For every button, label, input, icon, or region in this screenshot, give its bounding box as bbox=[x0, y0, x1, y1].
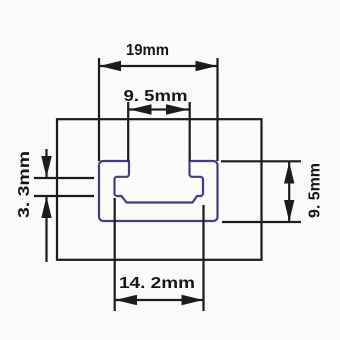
svg-text:3. 3mm: 3. 3mm bbox=[16, 151, 33, 218]
dim 9.5mm top arrowhead right bbox=[166, 104, 188, 114]
dim 19mm dimension line bbox=[99, 65, 218, 67]
dim 3.3mm extension line lower bbox=[34, 195, 94, 197]
dim 3.3mm dimension line lower tail bbox=[45, 196, 47, 262]
dim 3.3mm arrowhead up bbox=[41, 197, 51, 219]
svg-text:9. 5mm: 9. 5mm bbox=[124, 88, 188, 105]
dim 14.2mm arrowhead left bbox=[115, 295, 137, 305]
svg-text:19mm: 19mm bbox=[126, 42, 169, 59]
T-slot profile outline bbox=[99, 161, 218, 221]
dim 14.2mm extension line left bbox=[114, 198, 116, 311]
dim 9.5mm top arrowhead left bbox=[129, 104, 151, 114]
dim 19mm extension line left bbox=[98, 58, 100, 161]
dim 19mm extension line right bbox=[216, 58, 218, 161]
dim 9.5mm right arrowhead down bbox=[284, 200, 294, 222]
dim 14.2mm extension line right bbox=[202, 205, 204, 311]
dim 3.3mm arrowhead down bbox=[41, 156, 51, 178]
dim 9.5mm top dimension line bbox=[129, 108, 189, 110]
dim 19mm arrowhead left bbox=[100, 61, 122, 71]
dim 14.2mm arrowhead right bbox=[182, 295, 204, 305]
drawing frame rectangle bbox=[57, 119, 262, 260]
dim 9.5mm right extension line upper bbox=[221, 160, 301, 162]
dim 14.2mm dimension line bbox=[115, 299, 204, 301]
dim 9.5mm right dimension line bbox=[288, 161, 290, 222]
svg-text:14. 2mm: 14. 2mm bbox=[119, 275, 195, 292]
dim 9.5mm top extension line left bbox=[127, 102, 129, 161]
dim 3.3mm extension line upper bbox=[34, 177, 94, 179]
svg-text:9. 5mm: 9. 5mm bbox=[307, 163, 324, 218]
dim 3.3mm dimension line upper tail bbox=[45, 149, 47, 178]
dim 9.5mm right extension line lower bbox=[222, 221, 301, 223]
dim 9.5mm right arrowhead up bbox=[284, 162, 294, 184]
dim 9.5mm top extension line right bbox=[189, 102, 191, 161]
dim 19mm arrowhead right bbox=[196, 61, 218, 71]
